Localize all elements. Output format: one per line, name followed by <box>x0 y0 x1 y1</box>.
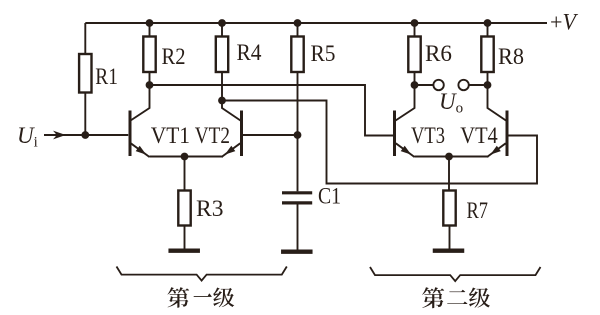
wire VT1 collector to VT3 base <box>150 85 395 136</box>
resistor R1 <box>79 54 91 93</box>
stage 1 brace <box>117 267 287 281</box>
R5 value label <box>311 41 336 66</box>
svg-text:Ui: Ui <box>17 123 38 151</box>
input arrowhead <box>53 131 66 140</box>
transistor VT4 <box>487 85 507 157</box>
wire R4 to node <box>221 72 223 101</box>
wire R6 to node <box>414 72 416 85</box>
wire rail to R5 <box>297 23 299 37</box>
wire rail to R1 <box>84 23 86 54</box>
svg-text:R5: R5 <box>311 41 336 66</box>
node rail-R4 <box>218 19 226 27</box>
R8 value label <box>498 44 524 69</box>
svg-text:Uo: Uo <box>439 89 463 117</box>
Ui input label <box>17 123 38 151</box>
svg-text:R2: R2 <box>162 44 186 69</box>
R7 value label <box>467 198 489 223</box>
label VT3 VT4 <box>411 123 498 148</box>
node R8-VT4 collector <box>484 81 492 89</box>
wire R3 to ground <box>184 226 186 249</box>
Uo output label <box>439 89 463 117</box>
node rail-R5 <box>294 19 302 27</box>
wire VT1 base <box>85 134 128 136</box>
resistor R6 <box>408 37 420 73</box>
output terminal circle 2 <box>458 80 468 90</box>
svg-text:VT4: VT4 <box>460 123 498 148</box>
stage 2 brace <box>370 267 541 281</box>
node stage2 emitter junction <box>445 153 453 161</box>
R3 value label <box>196 196 224 221</box>
node R6-VT3 collector <box>411 81 419 89</box>
resistor R3 <box>178 191 190 226</box>
node R2-VT1 collector <box>146 81 154 89</box>
wire R5 to VT2 base node <box>297 72 299 135</box>
node VT2 base / R5 / C1 <box>294 131 302 139</box>
wire R2 to node <box>149 72 151 85</box>
svg-text:R8: R8 <box>498 44 524 69</box>
wire to output terminal 1 <box>415 84 434 86</box>
node rail-R8 <box>484 19 492 27</box>
wire stage1 common emitter <box>150 156 224 158</box>
wire rail to R6 <box>414 23 416 37</box>
wire R1 to input node <box>84 93 86 136</box>
resistor R2 <box>143 37 155 73</box>
capacitor C1 <box>282 193 312 203</box>
wire R8 to node <box>487 72 489 85</box>
svg-text:VT3: VT3 <box>411 123 445 148</box>
svg-text:R7: R7 <box>467 198 489 223</box>
+V label <box>550 10 579 35</box>
wire R7 to ground <box>449 226 451 249</box>
svg-text:R4: R4 <box>237 40 262 65</box>
wire rail to R4 <box>221 23 223 37</box>
R4 value label <box>237 40 262 65</box>
wire rail to R2 <box>149 23 151 37</box>
resistor R4 <box>216 37 228 73</box>
transistor VT2 <box>222 101 242 158</box>
wire emitter to R3 <box>184 157 186 191</box>
stage 2 label 第二级 <box>422 287 490 308</box>
node rail-R2 <box>146 19 154 27</box>
stage 1 label 第一级 <box>167 287 234 307</box>
R6 value label <box>425 41 452 66</box>
wire emitter to R7 <box>448 157 450 191</box>
node rail-R6 <box>411 19 419 27</box>
ground below R7 <box>433 248 465 252</box>
svg-text:R1: R1 <box>95 64 118 89</box>
node input junction <box>81 131 89 139</box>
output terminal circle 1 <box>433 80 443 90</box>
svg-text:C1: C1 <box>318 184 341 209</box>
wire C1 to ground <box>297 205 299 251</box>
svg-text:R3: R3 <box>196 196 224 221</box>
R2 value label <box>162 44 186 69</box>
transistor VT1 <box>130 85 150 157</box>
wire from output terminal 2 <box>469 84 488 86</box>
node stage1 emitter junction <box>181 153 189 161</box>
label VT1 VT2 <box>151 123 230 148</box>
svg-text:+V: +V <box>550 10 579 35</box>
svg-text:VT2: VT2 <box>195 123 230 148</box>
resistor R8 <box>481 37 493 73</box>
wire VT2 base to node <box>242 134 298 136</box>
R1 value label <box>95 64 118 89</box>
node R4-VT2 collector <box>218 97 226 105</box>
C1 value label <box>318 184 341 209</box>
wire VT4 base <box>507 135 537 137</box>
svg-text:VT1: VT1 <box>151 123 190 148</box>
ground below R3 <box>168 248 200 252</box>
wire node to C1 <box>297 135 299 191</box>
resistor R7 <box>443 191 455 226</box>
wire rail to R8 <box>487 23 489 37</box>
ground below C1 <box>281 249 313 253</box>
wire stage2 common emitter <box>415 156 489 158</box>
input wire <box>44 134 85 136</box>
svg-text:R6: R6 <box>425 41 452 66</box>
wire VT2 collector to VT4 base <box>222 101 537 184</box>
power rail +V <box>85 22 547 24</box>
transistor VT3 <box>395 85 415 157</box>
resistor R5 <box>291 37 303 73</box>
